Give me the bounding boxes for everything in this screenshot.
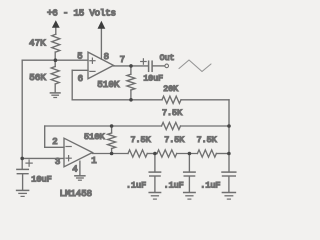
svg-text:510K: 510K [84,132,105,142]
svg-text:10uF: 10uF [143,75,163,84]
svg-text:LM1458: LM1458 [60,189,92,199]
svg-text:8: 8 [104,52,109,62]
svg-text:3: 3 [55,157,60,167]
svg-text:6: 6 [78,74,83,84]
svg-text:1: 1 [91,156,96,166]
svg-text:Out: Out [160,54,175,63]
svg-text:10uF: 10uF [31,175,51,185]
svg-text:7.5K: 7.5K [197,135,218,145]
svg-text:.1uF: .1uF [126,181,146,191]
svg-text:4: 4 [72,164,77,174]
svg-text:.1uF: .1uF [200,181,220,191]
svg-text:7.5K: 7.5K [162,108,183,118]
svg-text:+6 - 15 Volts: +6 - 15 Volts [47,8,116,19]
svg-text:7.5K: 7.5K [164,135,185,145]
svg-text:56K: 56K [29,72,46,83]
svg-text:7.5K: 7.5K [131,135,152,145]
svg-text:20K: 20K [163,85,178,94]
svg-text:510K: 510K [97,79,120,90]
svg-text:2: 2 [52,137,57,147]
svg-text:7: 7 [120,55,125,65]
svg-text:5: 5 [77,52,82,62]
svg-text:.1uF: .1uF [164,181,184,191]
svg-text:47K: 47K [29,38,46,49]
